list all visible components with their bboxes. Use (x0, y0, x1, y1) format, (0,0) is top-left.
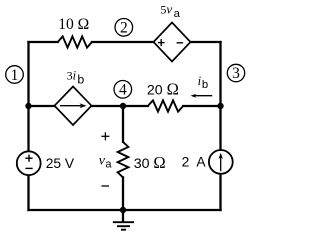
svg-text:3: 3 (232, 65, 240, 82)
svg-text:2: 2 (120, 20, 128, 37)
svg-text:10 Ω: 10 Ω (58, 16, 89, 33)
svg-text:1: 1 (11, 67, 19, 84)
svg-text:25 V: 25 V (46, 156, 75, 171)
svg-text:4: 4 (119, 81, 127, 98)
svg-text:30 Ω: 30 Ω (134, 153, 166, 172)
svg-text:20 Ω: 20 Ω (147, 80, 179, 99)
